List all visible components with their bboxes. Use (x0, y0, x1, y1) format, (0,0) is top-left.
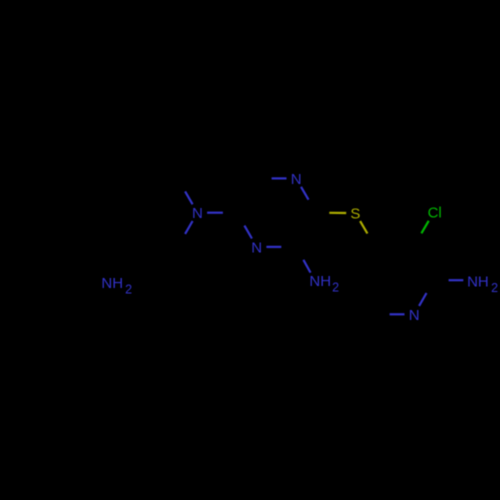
bond NH2-C2(pyridine) blue half (449, 279, 464, 281)
bond N1-C2(pyrazine) blue half (301, 187, 309, 200)
bond Npip-C6(piperidine) blue half (185, 221, 193, 234)
bond N4-C5(pyrazine) blue half (244, 226, 252, 239)
svg-text:N: N (251, 239, 262, 256)
svg-text:N: N (291, 171, 302, 188)
bond N1-C2(pyridine) blue half (419, 293, 426, 306)
svg-text:Cl: Cl (428, 205, 442, 222)
bond S-C4(pyridine) yellow half (360, 221, 367, 233)
svg-text:N: N (409, 307, 420, 324)
bond S-C2(pyrazine) yellow half (329, 212, 346, 214)
bond N1-C6(pyrazine) blue half (272, 177, 287, 179)
bond Npip-C5(pyrazine) blue half (207, 212, 223, 214)
bond Npip-C2(piperidine) blue half (185, 191, 193, 204)
svg-text:S: S (350, 206, 360, 223)
svg-text:N: N (192, 205, 203, 222)
bond N4-C3(pyrazine) blue half (266, 246, 281, 248)
bond N1-C6(pyridine) blue half (390, 313, 405, 315)
bond NH2-C3(pyrazine) blue half (303, 260, 310, 273)
bond Cl-C3(pyridine) green half (421, 221, 428, 234)
